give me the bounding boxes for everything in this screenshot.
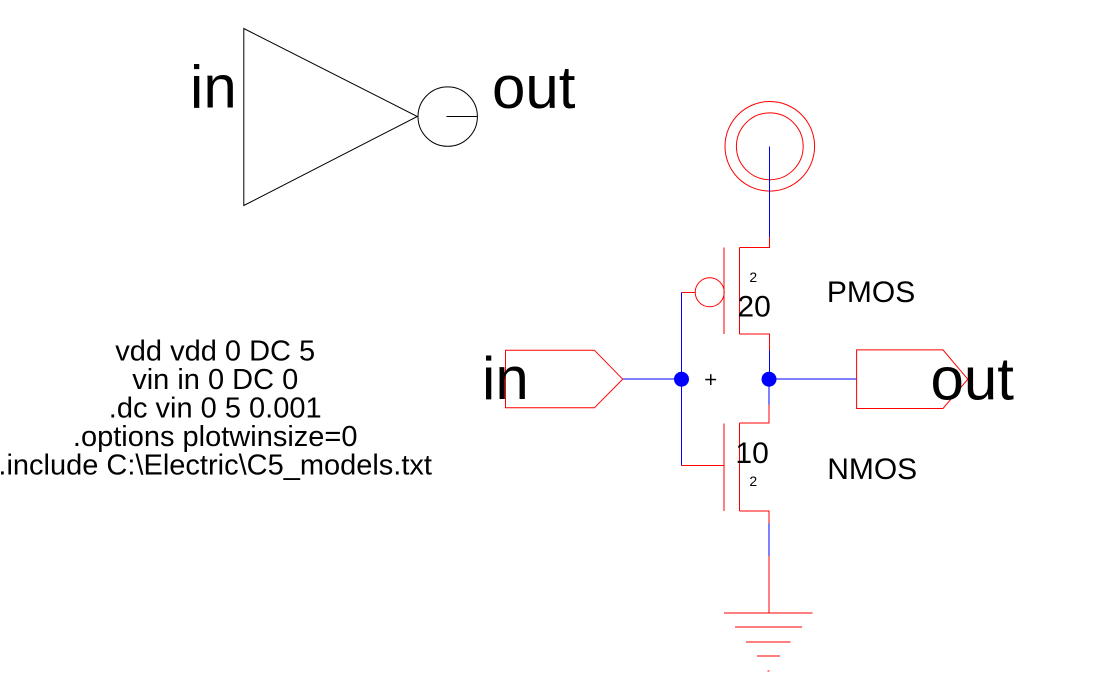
PMOS drain pin stub [739, 334, 769, 350]
svg-text:2: 2 [749, 269, 757, 285]
export pin in [506, 350, 623, 408]
junction node out [762, 372, 777, 387]
inverter output bubble [418, 87, 477, 146]
svg-text:10: 10 [735, 437, 768, 470]
NMOS gate pin stub [682, 465, 725, 467]
ground bar 4 [757, 655, 780, 657]
svg-text:NMOS: NMOS [827, 453, 917, 486]
transistor N1 channel line [738, 423, 740, 511]
svg-text:.options plotwinsize=0: .options plotwinsize=0 [73, 421, 358, 453]
svg-text:out: out [492, 54, 576, 121]
svg-text:20: 20 [737, 290, 770, 323]
svg-text:out: out [931, 345, 1015, 412]
power symbol VDD outer circle [725, 102, 815, 192]
transistor P1 channel line [738, 248, 740, 335]
NMOS source pin stub [739, 511, 769, 524]
wire NMOS source to ground [768, 523, 770, 555]
svg-text:2: 2 [749, 473, 757, 489]
svg-text:in: in [482, 345, 529, 412]
svg-text:.dc vin 0 5 0.001: .dc vin 0 5 0.001 [109, 393, 322, 425]
power symbol VDD inner circle [736, 113, 803, 180]
ground bar 5 [767, 670, 769, 672]
ground bar 3 [746, 641, 791, 643]
transistor P1 gate line [723, 248, 725, 335]
ground bar 2 [735, 626, 802, 628]
wire out node to NMOS drain [768, 379, 770, 405]
transistor P1 gate bubble [695, 278, 724, 307]
svg-text:vdd vdd 0 DC 5: vdd vdd 0 DC 5 [115, 336, 315, 368]
junction node in [674, 372, 689, 387]
svg-text:PMOS: PMOS [827, 276, 915, 309]
wire gate column [681, 292, 683, 465]
svg-text:in: in [190, 54, 237, 121]
ground lead [768, 556, 770, 613]
wire vdd to PMOS source [768, 146, 770, 237]
svg-text:.include C:\Electric\C5_models: .include C:\Electric\C5_models.txt [0, 450, 432, 482]
plus mark cell center [705, 374, 716, 385]
NMOS drain pin stub [739, 405, 769, 423]
export pin out [857, 350, 968, 409]
PMOS source pin stub [739, 237, 769, 247]
svg-text:vin in 0 DC 0: vin in 0 DC 0 [132, 364, 298, 396]
transistor N1 gate line [723, 424, 725, 511]
wire out node to out pin [769, 378, 857, 380]
wire in pin to gate node [623, 378, 682, 380]
inverter bubble tick [447, 116, 478, 118]
wire PMOS drain to output node [768, 351, 770, 380]
inverter buffer triangle [244, 29, 417, 206]
ground bar 1 [724, 612, 813, 614]
PMOS gate pin stub [682, 291, 696, 293]
